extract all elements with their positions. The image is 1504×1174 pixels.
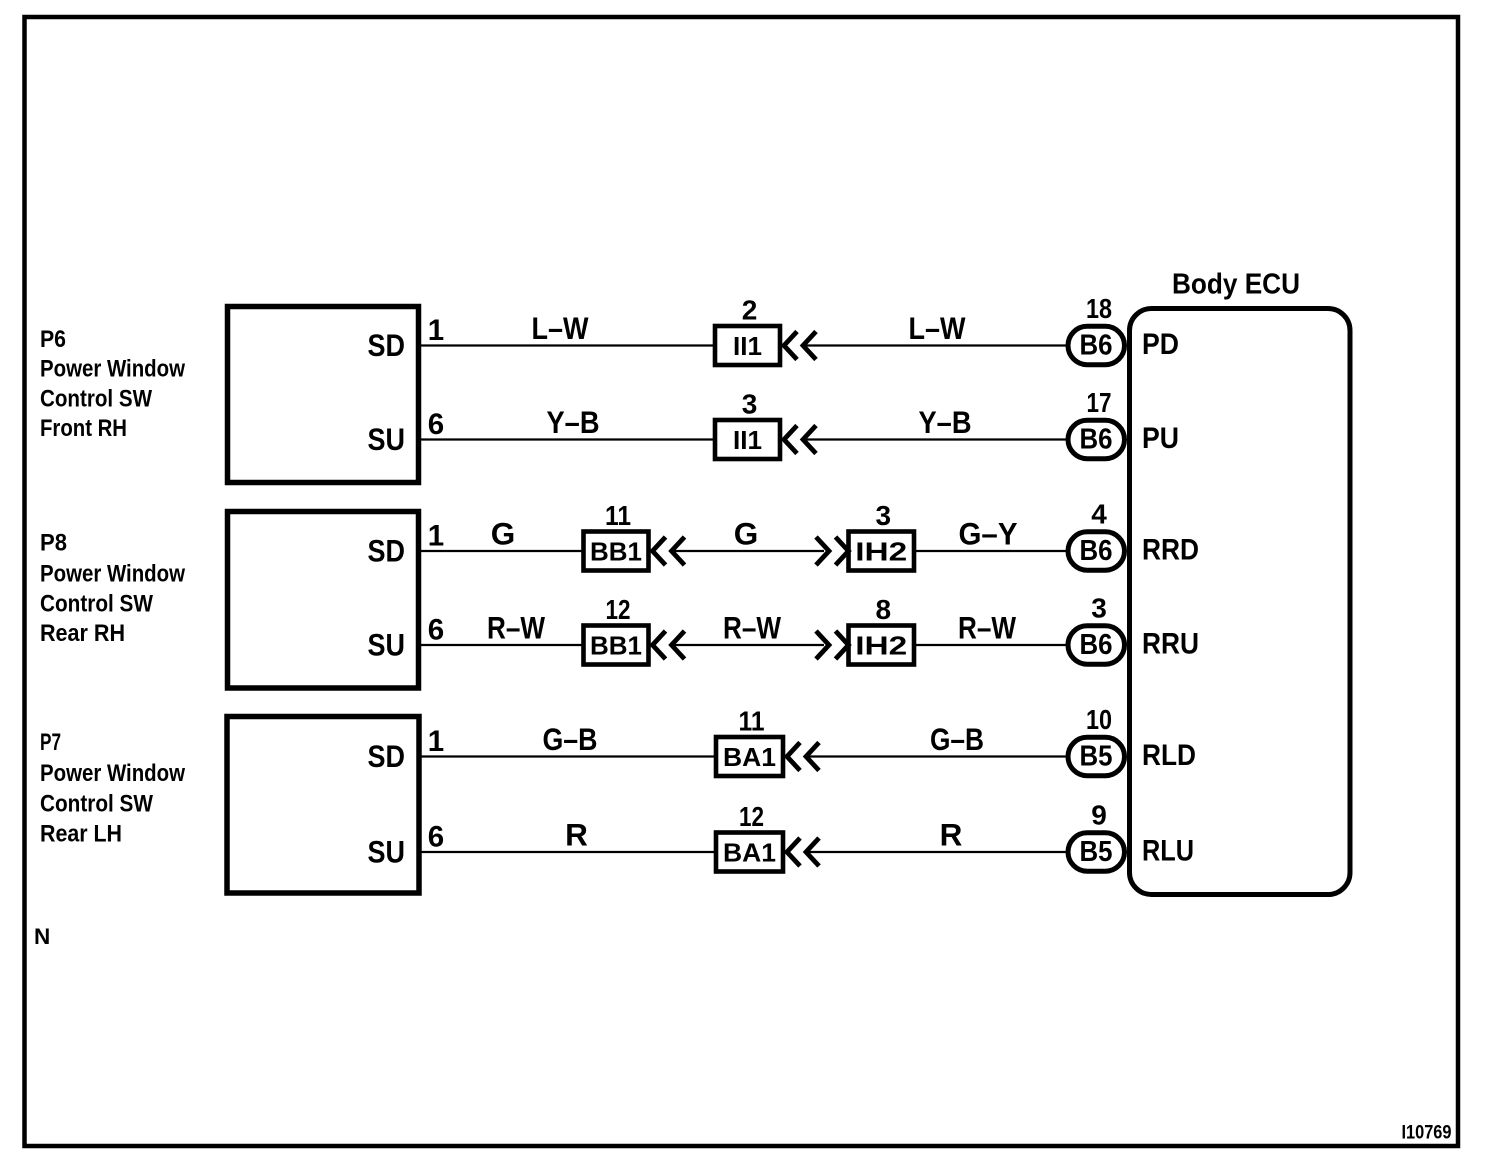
connector P6 Power Window Control SW Front RH [228, 307, 419, 483]
pin 8 [875, 594, 891, 625]
svg-text:6: 6 [428, 408, 444, 441]
svg-text:11: 11 [605, 500, 631, 531]
pin SU [368, 421, 406, 457]
svg-text:II1: II1 [733, 331, 762, 361]
svg-text:L–W: L–W [532, 310, 589, 346]
svg-text:10: 10 [1086, 704, 1112, 735]
svg-text:SU: SU [368, 421, 406, 457]
connector B6 pin 3 [1068, 626, 1125, 664]
svg-text:9: 9 [1091, 800, 1107, 831]
label L–W [909, 310, 966, 346]
svg-text:Control SW: Control SW [40, 591, 153, 618]
svg-text:PD: PD [1142, 328, 1179, 361]
svg-text:G–B: G–B [930, 721, 984, 757]
svg-text:RLD: RLD [1142, 739, 1196, 772]
svg-text:P6: P6 [40, 326, 66, 353]
label G–B [930, 721, 984, 757]
svg-text:1: 1 [428, 314, 444, 347]
svg-text:Front RH: Front RH [40, 415, 127, 442]
label G–Y [959, 516, 1018, 552]
label G [734, 516, 759, 552]
pin 4 [1091, 499, 1107, 530]
svg-text:3: 3 [875, 500, 891, 531]
svg-text:4: 4 [1091, 499, 1107, 530]
svg-text:BA1: BA1 [723, 742, 776, 772]
junction connector BA1 [716, 833, 783, 872]
pin 6 [428, 821, 444, 854]
connector arrows [816, 537, 849, 565]
svg-text:11: 11 [739, 706, 765, 737]
svg-text:Y–B: Y–B [547, 404, 600, 440]
svg-text:SD: SD [368, 327, 406, 363]
svg-text:Body ECU: Body ECU [1172, 269, 1300, 301]
junction connector BB1 [584, 626, 649, 665]
junction connector II1 [715, 326, 780, 365]
wire R–W between BB1 and IH2 [674, 644, 824, 646]
wire Y–B to Body ECU B6 [806, 438, 1068, 440]
pin 9 [1091, 800, 1107, 831]
pin 17 [1087, 387, 1112, 418]
connector arrows [816, 631, 849, 659]
label R–W [487, 610, 545, 646]
svg-text:B6: B6 [1080, 535, 1113, 567]
label P8 Power Window Control SW Rear RH [40, 530, 185, 648]
wire G from pin 1 to BB1 [419, 550, 584, 552]
pin 3 [1091, 593, 1107, 624]
node RRU [1142, 628, 1199, 661]
pin 1 [428, 725, 444, 758]
connector arrows [784, 426, 816, 454]
svg-text:12: 12 [739, 801, 764, 832]
node PD [1142, 328, 1179, 361]
svg-text:L–W: L–W [909, 310, 966, 346]
label R [940, 817, 963, 853]
pin 12 [606, 594, 631, 625]
connector arrows [653, 537, 685, 565]
svg-text:B6: B6 [1080, 424, 1113, 456]
svg-text:B5: B5 [1080, 741, 1113, 773]
node RLD [1142, 739, 1196, 772]
svg-text:R: R [940, 817, 963, 853]
svg-text:P8: P8 [40, 530, 67, 557]
connector arrows [787, 743, 819, 771]
node RRD [1142, 534, 1199, 567]
svg-text:3: 3 [1091, 593, 1107, 624]
pin 3 [742, 389, 758, 420]
pin SD [368, 327, 406, 363]
svg-text:Rear RH: Rear RH [40, 620, 125, 647]
svg-text:8: 8 [875, 594, 891, 625]
pin SU [368, 834, 406, 870]
node RLU [1142, 835, 1194, 868]
label R [565, 817, 588, 853]
svg-text:G–Y: G–Y [959, 516, 1018, 552]
connector B5 pin 10 [1068, 737, 1125, 775]
svg-text:I10769: I10769 [1402, 1123, 1452, 1144]
junction connector IH2 [849, 532, 915, 571]
svg-text:RLU: RLU [1142, 835, 1194, 868]
svg-text:II1: II1 [733, 425, 762, 455]
wire Y–B from pin 6 to II1 [419, 438, 715, 440]
svg-text:R: R [565, 817, 588, 853]
label P7 Power Window Control SW Rear LH [40, 729, 185, 848]
label I10769 [1402, 1123, 1452, 1144]
pin 2 [742, 295, 758, 326]
svg-text:2: 2 [742, 295, 758, 326]
label R–W [958, 610, 1016, 646]
pin 11 [605, 500, 631, 531]
ECU Body ECU [1130, 309, 1351, 895]
svg-text:1: 1 [428, 725, 444, 758]
label Y–B [547, 404, 600, 440]
pin 12 [739, 801, 764, 832]
svg-text:Power Window: Power Window [40, 561, 185, 588]
pin 10 [1086, 704, 1112, 735]
connector B6 pin 18 [1068, 326, 1125, 364]
svg-text:G: G [734, 516, 759, 552]
connector B6 pin 17 [1068, 420, 1125, 458]
junction connector BB1 [584, 532, 649, 571]
svg-text:RRD: RRD [1142, 534, 1199, 567]
svg-text:N: N [34, 924, 50, 949]
pin 6 [428, 408, 444, 441]
node PU [1142, 422, 1179, 455]
wire R to Body ECU B5 [809, 851, 1068, 853]
connector arrows [787, 838, 819, 866]
svg-text:Rear LH: Rear LH [40, 821, 122, 848]
pin 6 [428, 614, 444, 647]
pin 18 [1086, 293, 1112, 324]
connector P7 Power Window Control SW Rear LH [227, 717, 419, 894]
wire G between BB1 and IH2 [674, 550, 824, 552]
junction connector IH2 [849, 626, 915, 665]
svg-text:18: 18 [1086, 293, 1112, 324]
svg-text:R–W: R–W [487, 610, 545, 646]
svg-text:6: 6 [428, 821, 444, 854]
svg-text:1: 1 [428, 520, 444, 553]
svg-text:SD: SD [368, 738, 406, 774]
pin 3 [875, 500, 891, 531]
svg-text:17: 17 [1087, 387, 1112, 418]
svg-text:BB1: BB1 [590, 631, 642, 661]
svg-text:Power Window: Power Window [40, 356, 185, 383]
svg-text:6: 6 [428, 614, 444, 647]
wire L–W to Body ECU B6 [806, 344, 1068, 346]
pin SU [368, 627, 406, 663]
connector B5 pin 9 [1068, 833, 1125, 871]
pin SD [368, 738, 406, 774]
svg-text:B5: B5 [1080, 836, 1113, 868]
wire G–B from pin 1 to BA1 [419, 755, 716, 757]
svg-text:SU: SU [368, 834, 406, 870]
label Y–B [919, 404, 972, 440]
svg-text:BB1: BB1 [590, 537, 642, 567]
wire G–Y to Body ECU B6 [916, 550, 1068, 552]
connector arrows [784, 332, 816, 360]
wire R–W from pin 6 to BB1 [419, 644, 584, 646]
svg-text:BA1: BA1 [723, 838, 776, 868]
label G–B [543, 721, 598, 757]
label G [491, 516, 516, 552]
connector arrows [653, 631, 685, 659]
svg-text:12: 12 [606, 594, 631, 625]
svg-text:Y–B: Y–B [919, 404, 972, 440]
pin 1 [428, 314, 444, 347]
svg-text:R–W: R–W [958, 610, 1016, 646]
svg-text:IH2: IH2 [855, 537, 907, 567]
label P6 Power Window Control SW Front RH [40, 326, 185, 442]
svg-text:IH2: IH2 [855, 631, 907, 661]
svg-text:3: 3 [742, 389, 758, 420]
wire G–B to Body ECU B5 [809, 755, 1068, 757]
svg-text:Control SW: Control SW [40, 791, 153, 818]
svg-text:RRU: RRU [1142, 628, 1199, 661]
wire R from pin 6 to BA1 [419, 851, 716, 853]
svg-text:G: G [491, 516, 516, 552]
pin SD [368, 533, 406, 569]
svg-text:R–W: R–W [723, 610, 781, 646]
svg-text:SD: SD [368, 533, 406, 569]
svg-text:Power Window: Power Window [40, 760, 185, 787]
junction connector II1 [715, 420, 780, 459]
node N [34, 924, 50, 949]
svg-text:B6: B6 [1080, 330, 1113, 362]
svg-text:PU: PU [1142, 422, 1179, 455]
svg-text:Control SW: Control SW [40, 386, 152, 413]
svg-text:G–B: G–B [543, 721, 598, 757]
svg-text:SU: SU [368, 627, 406, 663]
pin 1 [428, 520, 444, 553]
wire L–W from pin 1 to II1 [419, 344, 715, 346]
connector B6 pin 4 [1068, 532, 1125, 570]
pin 11 [739, 706, 765, 737]
connector P8 Power Window Control SW Rear RH [228, 512, 419, 689]
svg-text:B6: B6 [1080, 629, 1113, 661]
label Body ECU [1172, 269, 1300, 301]
label L–W [532, 310, 589, 346]
label R–W [723, 610, 781, 646]
wire R–W to Body ECU B6 [916, 644, 1068, 646]
junction connector BA1 [716, 737, 783, 776]
svg-text:P7: P7 [40, 729, 61, 756]
